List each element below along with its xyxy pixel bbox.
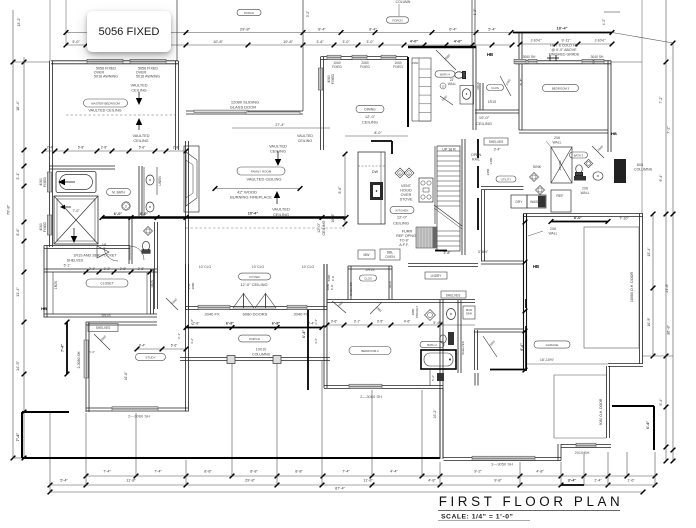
svg-text:WALL: WALL [448,82,457,86]
svg-text:CLOS: CLOS [491,86,499,90]
porch column right [273,356,281,364]
svg-text:C.O.: C.O. [330,284,334,290]
svg-text:SINK: SINK [466,312,473,316]
bath2 toilet [440,335,447,343]
svg-text:2X6: 2X6 [582,187,588,191]
svg-text:8’-4”: 8’-4” [369,28,377,32]
left extension lines [13,61,49,63]
svg-text:SHELVES: SHELVES [446,294,460,298]
mud hall wall y262 [481,260,524,262]
svg-text:2’-8”: 2’-8” [190,319,194,325]
tub arrow [58,179,65,185]
svg-text:7’-0”: 7’-0” [72,209,80,213]
bath4 shelves closet [412,58,431,121]
bottom dimension row 1 [86,475,655,477]
svg-text:SHELVES: SHELVES [461,341,465,355]
front double doors [233,294,244,309]
svg-text:7’-10”: 7’-10” [619,217,629,221]
svg-text:GARAGE: GARAGE [546,343,559,347]
svg-text:1R1S: 1R1S [388,281,392,289]
svg-text:REF: REF [556,194,564,198]
master bath top wall [49,165,115,167]
svg-text:3’-4”: 3’-4” [568,479,577,483]
svg-text:VAULTED: VAULTED [131,84,148,88]
study east wall [185,310,187,412]
window 2-3080 SH [84,340,88,378]
kitchen diamonds [395,168,405,178]
svg-text:4’-6”: 4’-6” [404,320,411,324]
kitchen counter wall [434,146,436,224]
svg-text:5’-1”: 5’-1” [64,264,71,268]
svg-text:MW: MW [363,253,370,257]
bold bottom patio line [22,457,440,459]
svg-text:11’-8”: 11’-8” [363,479,373,483]
svg-text:9080 O.H. DOOR: 9080 O.H. DOOR [599,398,603,425]
svg-text:11’-4”: 11’-4” [15,286,20,296]
svg-text:9’-4”: 9’-4” [659,174,663,182]
svg-text:4’-8”: 4’-8” [536,470,544,474]
svg-text:10’-4”: 10’-4” [248,212,259,216]
island dashed [358,165,385,167]
svg-text:1’-2”: 1’-2” [473,9,477,15]
svg-text:18’-4”: 18’-4” [556,26,567,31]
svg-text:HOT & COLD HB: HOT & COLD HB [550,44,578,48]
bold corner bottom right [612,405,654,407]
svg-text:10X10: 10X10 [256,348,266,352]
kitchen top dim [345,135,408,137]
svg-text:8’-0”: 8’-0” [574,216,583,220]
svg-text:LINEN: LINEN [158,176,162,186]
patio window 3-3050 [472,456,535,460]
hall bold wall segments [408,46,476,48]
svg-text:3’-1”: 3’-1” [354,320,361,324]
svg-text:1R2S: 1R2S [54,280,58,289]
patio east wall [557,444,559,461]
svg-text:PORCH: PORCH [244,11,254,15]
svg-text:3’-1”: 3’-1” [16,172,20,180]
svg-text:WASH: WASH [530,200,540,204]
svg-text:HB: HB [487,52,493,57]
svg-text:2480: 2480 [489,157,493,164]
svg-text:KITCHEN: KITCHEN [396,208,409,212]
stair rail wall [461,139,463,255]
svg-text:2’-1”: 2’-1” [89,267,95,271]
svg-text:16’-6”: 16’-6” [124,372,128,381]
left inner dimension line [23,57,25,458]
bathtub [56,172,96,193]
m.bath circle 2 [122,202,130,210]
svg-text:HB: HB [611,132,617,136]
svg-text:2: 2 [125,205,127,209]
svg-text:10’ CLG: 10’ CLG [199,265,212,269]
svg-text:CEILING: CEILING [273,212,289,217]
svg-text:70’-8”: 70’-8” [6,204,11,215]
svg-text:5016 AWNING: 5016 AWNING [94,75,118,79]
svg-text:CEILING: CEILING [133,139,148,143]
bath4 diag door [436,50,456,70]
window 4060 upper [47,172,51,192]
bedroom3 closet walls [475,109,519,111]
mud north wall [481,186,524,188]
svg-text:6’-4”: 6’-4” [520,79,524,86]
svg-text:3’-8½”: 3’-8½” [478,250,489,254]
ref box [551,190,571,212]
patio bottom wall [444,457,562,459]
svg-text:FIRST FLOOR PLAN: FIRST FLOOR PLAN [439,494,624,509]
svg-text:2040 FX: 2040 FX [293,312,308,317]
svg-text:FIXED: FIXED [43,176,47,187]
svg-text:6’-8”: 6’-8” [272,322,281,326]
foyer oval [239,273,271,280]
svg-text:COLUMNS: COLUMNS [252,353,271,357]
sliding door panels [194,110,248,112]
garage 9080 panel [553,375,555,438]
left outer dimension line [12,10,14,458]
water closet toilet [142,241,150,253]
family dim 27-4 [232,127,330,129]
mud sink [447,309,456,320]
svg-text:2’-2”: 2’-2” [104,267,110,271]
svg-text:REF OPNG: REF OPNG [396,234,416,238]
fireplace [184,146,199,212]
svg-text:VAULTED CEILING: VAULTED CEILING [88,109,121,113]
svg-text:DBL: DBL [387,251,394,255]
svg-text:2-3080 SH: 2-3080 SH [77,351,81,368]
svg-text:VAULTED: VAULTED [133,134,150,138]
svg-text:4’-6”: 4’-6” [454,40,463,44]
svg-text:FAMILY ROOM: FAMILY ROOM [251,169,272,173]
bottom dimension row 2 [50,484,561,486]
svg-text:7’-4”: 7’-4” [103,470,111,474]
svg-text:CEILING: CEILING [476,121,492,126]
svg-text:M. BATH: M. BATH [112,190,125,194]
fridge [416,227,437,248]
porch column left [227,356,235,364]
dry box [511,195,527,208]
closet left exterior wall [43,246,45,318]
porch vertical line right [471,0,473,45]
svg-text:18080 O.H. DOOR: 18080 O.H. DOOR [630,272,634,303]
mud sink box [463,306,475,319]
living sliding door wall [186,110,303,112]
shower head arrow [60,205,65,210]
m.bath oval [107,189,131,196]
svg-text:27’-4”: 27’-4” [275,123,285,127]
svg-text:SHELVES: SHELVES [489,140,503,144]
bold west dim [307,310,309,390]
svg-text:TO 8’: TO 8’ [399,239,408,243]
svg-text:C.O.: C.O. [331,275,335,281]
svg-text:8’-4”: 8’-4” [318,28,326,32]
svg-text:1R1S AND 2880 POCKET: 1R1S AND 2880 POCKET [73,254,117,258]
svg-text:4’-2”: 4’-2” [314,338,318,344]
svg-text:3’-4”: 3’-4” [314,319,318,325]
svg-text:CEILING: CEILING [298,139,313,143]
hall diag door 2780 [500,76,511,96]
mud diamond [425,310,436,321]
bedroom2 bottom wall [324,385,443,387]
svg-text:VENT: VENT [401,184,412,188]
svg-text:7’-4”: 7’-4” [154,470,162,474]
svg-text:CEILING: CEILING [393,221,409,226]
svg-text:3’-2”: 3’-2” [306,11,310,17]
svg-text:COLUMN: COLUMN [396,0,411,4]
bold study dim 7-4 [66,322,68,374]
patio window wall 2010 [561,444,611,446]
garage oval [534,341,570,348]
svg-text:5’-4”: 5’-4” [60,479,68,483]
bath2 vestibule [474,373,476,386]
family vaulted arrow up [274,191,280,198]
svg-text:BATH 3: BATH 3 [574,153,584,157]
svg-text:6’-4”: 6’-4” [646,421,650,429]
svg-text:10’-8”: 10’-8” [283,40,293,44]
svg-text:5’-6”: 5’-6” [89,350,95,354]
laundry walls [408,263,478,265]
bath4 sink [462,89,471,100]
study oval [136,354,166,361]
svg-text:BATH 2: BATH 2 [427,343,437,347]
svg-text:OVER: OVER [401,193,412,197]
svg-text:1060: 1060 [412,61,419,65]
linen closet lines [156,167,158,195]
window 4060 lower [47,215,51,235]
svg-text:4’-2”: 4’-2” [190,338,194,344]
shower arrow [71,236,77,243]
bedroom3 block west wall [518,33,520,130]
svg-text:7’-4”: 7’-4” [342,470,350,474]
svg-text:5’-6”: 5’-6” [171,344,178,348]
garage north wall [524,213,644,215]
bath3 diamond [584,159,592,167]
svg-text:3080: 3080 [191,282,195,289]
svg-text:HOOD: HOOD [400,189,412,193]
svg-text:3—3050 SH: 3—3050 SH [491,462,513,467]
svg-text:VAULTED: VAULTED [272,207,290,212]
svg-text:BEDROOM 2: BEDROOM 2 [361,349,379,353]
svg-text:5’-2”: 5’-2” [431,375,435,381]
svg-text:87’-4”: 87’-4” [335,487,345,491]
svg-text:3’-8”: 3’-8” [443,251,451,255]
svg-text:2—3060 SH: 2—3060 SH [128,414,150,419]
svg-text:18: 18 [102,242,107,247]
bedroom2 east wall lower [439,388,441,458]
garage se jog [608,363,643,365]
top dimension row 1 [66,32,513,34]
hose bibs [549,55,551,61]
svg-text:6’-4”: 6’-4” [302,330,306,338]
svg-text:29’-8”: 29’-8” [245,479,255,483]
svg-text:21’-8”: 21’-8” [665,283,669,293]
svg-text:COLUMNS: COLUMNS [634,168,653,172]
svg-text:PORCH: PORCH [249,337,260,341]
svg-text:29’-8”: 29’-8” [240,27,251,32]
shelves label laundry [441,291,466,298]
bath3 sink [593,172,603,180]
vanity sink 1 [146,175,154,185]
svg-text:13: 13 [441,84,445,88]
svg-text:3’-0”: 3’-0” [342,40,350,44]
svg-text:8’-0”: 8’-0” [374,131,382,135]
range [419,178,433,202]
svg-text:6’-0”: 6’-0” [114,212,123,216]
bath4 vanity [460,86,474,105]
svg-text:BATH 4: BATH 4 [440,72,450,76]
svg-text:11’-8”: 11’-8” [126,479,136,483]
shower [54,196,98,244]
svg-text:2040 FX: 2040 FX [204,312,219,317]
right dimension lines [672,43,674,461]
bedroom3 oval [543,84,579,91]
garage door 18080 panel [584,227,639,348]
svg-text:13’-2”: 13’-2” [17,17,21,27]
bedroom2 closet walls [348,265,392,267]
svg-text:7’-4”: 7’-4” [61,344,65,352]
svg-text:WALL: WALL [552,141,561,145]
bed2 door diagonals [332,301,346,313]
garage 9080 door wall [606,366,608,438]
closet bottom wall [44,313,157,315]
master bath dim row [44,150,186,152]
bath4 toilet [455,71,466,79]
svg-text:2’-4”: 2’-4” [594,479,602,483]
svg-text:8’-8”: 8’-8” [295,470,303,474]
family dashed ceiling line [186,227,345,229]
bedroom3 south wall [519,129,608,131]
right extension lines [612,33,673,44]
svg-text:2X6: 2X6 [550,227,556,231]
svg-text:2R1S: 2R1S [476,82,480,90]
svg-text:OPEN: OPEN [471,153,482,157]
svg-text:7’-2”: 7’-2” [659,96,663,104]
foyer window left 2040 [198,305,230,309]
svg-text:12’-0” CEILING: 12’-0” CEILING [240,282,267,287]
lndry box [425,272,447,279]
svg-text:5’-6”: 5’-6” [139,146,146,150]
svg-text:SHELVES: SHELVES [67,259,84,263]
svg-text:6’-8”: 6’-8” [226,322,235,326]
family room oval [237,167,285,175]
svg-text:RAIL: RAIL [472,158,480,162]
svg-text:4’-4”: 4’-4” [390,470,398,474]
svg-text:5’-0”: 5’-0” [72,40,80,44]
garage south thin line [527,363,608,365]
svg-text:6’-4”: 6’-4” [520,343,524,351]
wash box [527,195,546,208]
porch column line left [176,0,178,61]
column block [614,159,626,183]
svg-text:15’-4”: 15’-4” [647,247,651,257]
svg-text:2—3060 SH: 2—3060 SH [360,394,382,399]
svg-text:10’ CLG: 10’ CLG [302,265,315,269]
top porch oval 1 [237,9,261,15]
master bedroom oval [84,99,128,107]
master right wall [175,61,177,150]
svg-text:3040 SH: 3040 SH [591,55,604,59]
hall wall right of closet [128,218,130,265]
vanity wall [138,166,140,217]
svg-text:HB: HB [41,306,47,311]
top porch oval 2 [387,17,409,23]
svg-text:FIXED: FIXED [360,65,370,69]
svg-text:6080 DOORS: 6080 DOORS [243,312,268,317]
study top wall [86,321,157,323]
svg-text:VAULTED CEILING: VAULTED CEILING [247,177,282,182]
shelves box right [484,138,508,145]
svg-text:DINING: DINING [364,107,376,111]
window 2-3060 SH study [112,407,158,411]
svg-text:1R1S: 1R1S [488,100,497,104]
svg-text:BEDROOM 3: BEDROOM 3 [552,86,570,90]
bath3 oval [570,152,588,158]
closet inner wall lines [52,272,54,314]
svg-text:7’-4”: 7’-4” [15,433,20,442]
porch oval bottom [239,335,271,342]
svg-text:5’-4”: 5’-4” [659,398,663,406]
window 5056 right [130,59,166,63]
svg-text:FIXED: FIXED [393,65,403,69]
svg-text:3060 SH: 3060 SH [523,55,536,59]
svg-text:5’-4”: 5’-4” [488,28,496,32]
svg-text:3’-6”: 3’-6” [331,320,338,324]
svg-text:PORCH: PORCH [392,18,402,22]
vanity counter [143,167,145,217]
bedroom3 east wall [607,61,609,152]
svg-text:WALL: WALL [548,232,557,236]
svg-text:2’-1”: 2’-1” [177,333,181,339]
svg-text:SINK: SINK [533,165,542,169]
hall door arc 2 [104,247,118,261]
svg-text:2’-6”: 2’-6” [120,267,126,271]
svg-text:OVEN: OVEN [385,255,395,259]
fireplace dim line [215,188,300,190]
study door diag [94,334,110,350]
svg-text:18’-10½”: 18’-10½” [540,358,555,362]
bath4 wall [472,46,474,130]
svg-text:5016 AWNING: 5016 AWNING [136,75,160,79]
bedroom2 oval [349,347,391,355]
master sitting dashed divider [66,114,175,116]
svg-text:FIXED: FIXED [43,221,47,232]
svg-text:2010 SH: 2010 SH [575,451,590,455]
svg-text:12’-0”: 12’-0” [317,222,321,232]
mud hall wall y329 [474,328,524,330]
bold left L dimension [22,411,69,413]
svg-text:CLOS: CLOS [364,276,372,280]
svg-text:2-10½”: 2-10½” [531,39,542,43]
garage east wall [639,214,641,353]
svg-text:4’-2”: 4’-2” [602,19,606,25]
bath2 wall [457,300,459,373]
dining west wall [320,57,322,150]
bath2 oval [420,341,444,347]
svg-text:8’-8”: 8’-8” [250,470,258,474]
svg-text:2X6: 2X6 [554,136,560,140]
bath3 door 2880 [592,146,604,158]
vanity sink 2 [146,202,154,212]
svg-text:2R1S: 2R1S [366,268,376,272]
closet top wall [44,268,157,270]
svg-text:14’-5”: 14’-5” [15,360,20,371]
bath4 door 2480 [440,96,453,105]
utility oval [496,176,516,182]
toilet room door arc [130,246,144,260]
svg-text:16’-8”: 16’-8” [331,213,335,223]
clos oval bedroom3 [487,85,504,91]
svg-text:SHELVES: SHELVES [96,326,110,330]
svg-text:12’-0”: 12’-0” [397,215,408,220]
foyer side walls [185,264,187,310]
